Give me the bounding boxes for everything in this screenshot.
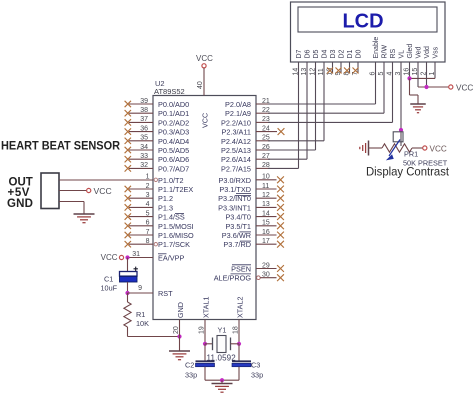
svg-text:32: 32 (140, 162, 148, 169)
svg-text:D6: D6 (305, 49, 312, 58)
svg-text:D3: D3 (330, 49, 337, 58)
svg-text:10K: 10K (136, 319, 149, 328)
svg-text:Vss: Vss (433, 46, 440, 58)
svg-text:39: 39 (140, 98, 148, 105)
svg-text:33: 33 (140, 153, 148, 160)
svg-text:18: 18 (232, 326, 239, 334)
svg-text:D0: D0 (356, 49, 363, 58)
svg-text:20: 20 (173, 326, 180, 334)
svg-text:38: 38 (140, 107, 148, 114)
svg-text:VCC: VCC (430, 145, 447, 154)
svg-text:P2.5/A13: P2.5/A13 (221, 146, 251, 155)
svg-text:P1.5/MOSI: P1.5/MOSI (158, 222, 194, 231)
svg-text:P0.0/AD0: P0.0/AD0 (158, 100, 189, 109)
svg-text:33p: 33p (185, 371, 197, 380)
svg-text:P1.3: P1.3 (158, 203, 173, 212)
svg-text:P3.0/RXD: P3.0/RXD (219, 176, 251, 185)
svg-text:P0.2/AD2: P0.2/AD2 (158, 118, 189, 127)
svg-text:10uF: 10uF (101, 284, 118, 293)
svg-text:PSEN: PSEN (231, 265, 251, 274)
svg-text:31: 31 (132, 251, 140, 258)
svg-text:VL: VL (399, 50, 406, 59)
svg-text:P0.7/AD7: P0.7/AD7 (158, 164, 189, 173)
svg-text:RS: RS (390, 48, 397, 58)
svg-text:P0.6/AD6: P0.6/AD6 (158, 155, 189, 164)
svg-text:33p: 33p (251, 371, 263, 380)
svg-text:AT89S52: AT89S52 (154, 87, 185, 96)
svg-text:36: 36 (140, 125, 148, 132)
svg-text:P1.2: P1.2 (158, 194, 173, 203)
svg-text:C3: C3 (251, 361, 260, 370)
svg-text:P0.4/AD4: P0.4/AD4 (158, 137, 189, 146)
svg-text:D5: D5 (313, 49, 320, 58)
svg-text:19: 19 (198, 326, 205, 334)
svg-text:P1.6/MISO: P1.6/MISO (158, 231, 194, 240)
svg-text:P3.3/INT1: P3.3/INT1 (218, 203, 251, 212)
svg-text:Vdd: Vdd (424, 46, 431, 59)
svg-text:P3.5/T1: P3.5/T1 (225, 222, 251, 231)
svg-text:P1.0/T2: P1.0/T2 (158, 176, 184, 185)
svg-text:P3.6/WR: P3.6/WR (222, 231, 251, 240)
svg-text:35: 35 (140, 135, 148, 142)
svg-text:P2.4/A12: P2.4/A12 (221, 137, 251, 146)
svg-text:P3.7/RD: P3.7/RD (223, 240, 251, 249)
svg-text:VCC: VCC (456, 84, 473, 93)
svg-text:40: 40 (197, 81, 204, 89)
svg-text:D2: D2 (339, 49, 346, 58)
svg-text:D4: D4 (322, 49, 329, 58)
svg-text:P0.5/AD5: P0.5/AD5 (158, 146, 189, 155)
svg-text:P0.3/AD3: P0.3/AD3 (158, 128, 189, 137)
svg-text:P1.4/SS: P1.4/SS (158, 213, 185, 222)
svg-text:R/W: R/W (382, 45, 389, 59)
svg-text:P2.3/A11: P2.3/A11 (222, 128, 251, 137)
svg-text:P2.7/A15: P2.7/A15 (221, 164, 251, 173)
svg-text:Y1: Y1 (218, 326, 227, 335)
svg-text:P2.1/A9: P2.1/A9 (225, 109, 251, 118)
svg-text:9: 9 (138, 285, 142, 292)
svg-text:VCC: VCC (200, 113, 209, 128)
svg-text:VCC: VCC (94, 186, 112, 196)
svg-text:PR1: PR1 (404, 150, 418, 159)
svg-text:Gled: Gled (407, 44, 414, 59)
svg-text:RST: RST (158, 289, 173, 298)
svg-text:P3.1/TXD: P3.1/TXD (219, 185, 251, 194)
svg-text:P3.4/T0: P3.4/T0 (225, 213, 251, 222)
svg-text:P2.2/A10: P2.2/A10 (221, 118, 251, 127)
svg-text:P2.0/A8: P2.0/A8 (225, 100, 251, 109)
svg-text:C2: C2 (185, 361, 194, 370)
svg-text:P0.1/AD1: P0.1/AD1 (158, 109, 189, 118)
svg-text:EA/VPP: EA/VPP (158, 254, 184, 263)
svg-text:Ved: Ved (416, 46, 423, 58)
svg-text:LCD: LCD (342, 11, 383, 33)
svg-text:37: 37 (140, 116, 148, 123)
svg-text:D7: D7 (296, 49, 303, 58)
svg-text:ALE/PROG: ALE/PROG (214, 274, 252, 283)
svg-text:P1.1/T2EX: P1.1/T2EX (158, 185, 193, 194)
svg-text:P1.7/SCK: P1.7/SCK (158, 240, 190, 249)
svg-text:XTAL1: XTAL1 (202, 297, 211, 318)
svg-text:Display Contrast: Display Contrast (366, 165, 450, 179)
svg-text:R1: R1 (136, 310, 145, 319)
svg-text:XTAL2: XTAL2 (236, 297, 245, 318)
svg-text:P2.6/A14: P2.6/A14 (221, 155, 251, 164)
svg-text:D1: D1 (347, 49, 354, 58)
svg-text:HEART BEAT SENSOR: HEART BEAT SENSOR (1, 139, 120, 153)
svg-text:VCC: VCC (101, 253, 118, 262)
svg-text:C1: C1 (104, 275, 113, 284)
svg-text:34: 34 (140, 144, 148, 151)
svg-text:VCC: VCC (196, 54, 213, 63)
svg-text:GND: GND (7, 198, 33, 210)
svg-text:Enable: Enable (373, 37, 380, 59)
svg-text:GND: GND (176, 302, 185, 318)
